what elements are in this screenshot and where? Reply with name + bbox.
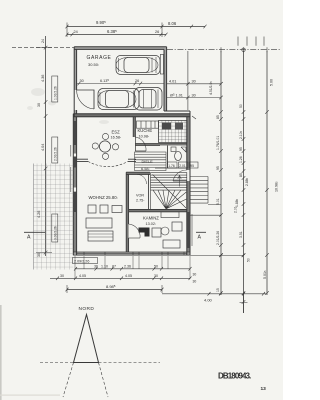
kitchen bottom wall	[135, 144, 186, 146]
WC sink	[171, 147, 176, 152]
svg-text:4.51/2.05: 4.51/2.05	[209, 81, 213, 95]
garage walls	[74, 47, 166, 117]
KAMINZ fireplace	[139, 228, 150, 237]
svg-text:ESZ: ESZ	[112, 130, 121, 135]
svg-text:A: A	[198, 235, 202, 241]
north arrow triangle	[74, 315, 99, 363]
door WOHNZ/VOR	[129, 237, 140, 239]
svg-text:4.05: 4.05	[79, 274, 86, 278]
kitchen stove dark	[175, 123, 183, 130]
kitchen counter band	[137, 121, 159, 128]
svg-text:6.58▫: 6.58▫	[141, 166, 150, 171]
svg-text:95: 95	[190, 164, 194, 168]
VOR right wall	[148, 174, 150, 209]
svg-text:GARAGE: GARAGE	[87, 55, 112, 61]
wide opening arc (ESZ-WOHNZ)	[88, 161, 128, 166]
left wall dark segment 3	[73, 192, 76, 212]
svg-text:30.50▫: 30.50▫	[88, 62, 99, 67]
svg-text:10.985: 10.985	[275, 181, 279, 192]
svg-text:DIELE: DIELE	[142, 159, 154, 164]
svg-text:50: 50	[247, 258, 251, 262]
svg-text:26: 26	[155, 30, 159, 34]
svg-text:4.00: 4.00	[204, 298, 213, 303]
svg-text:30: 30	[60, 274, 64, 278]
svg-text:30: 30	[80, 79, 84, 83]
svg-text:A: A	[27, 235, 31, 241]
fence ticks on axis	[238, 37, 264, 46]
svg-text:30: 30	[193, 273, 197, 277]
right vertical dimension line R2	[242, 51, 246, 313]
svg-text:30: 30	[37, 103, 41, 107]
svg-text:2.36: 2.36	[124, 264, 131, 268]
stairs	[151, 173, 187, 210]
svg-text:1.76: 1.76	[168, 164, 175, 168]
svg-text:2.09/2.26: 2.09/2.26	[74, 259, 89, 263]
svg-text:30: 30	[192, 93, 196, 97]
svg-text:15: 15	[216, 288, 220, 292]
sofa	[86, 218, 112, 228]
svg-text:87: 87	[112, 264, 116, 268]
svg-text:4.05: 4.05	[125, 274, 132, 278]
svg-text:2.75▫: 2.75▫	[136, 199, 144, 203]
right vertical dimension line R3	[265, 51, 269, 295]
axis crosses	[221, 47, 267, 52]
left vertical dimension line	[36, 36, 52, 256]
svg-text:Ø51.01: Ø51.01	[170, 92, 183, 97]
garage door (left)	[77, 90, 94, 109]
svg-text:KÜCHE: KÜCHE	[138, 128, 153, 133]
entrance door right	[173, 180, 187, 182]
house top wall / garage bottom wall	[73, 111, 190, 117]
WOHNZ furniture: armchairs	[88, 205, 96, 213]
DIELE hatched wardrobe box	[135, 152, 167, 171]
dim line 1.01/30	[167, 96, 222, 100]
svg-text:VOR: VOR	[136, 194, 144, 198]
svg-text:1.10: 1.10	[101, 264, 108, 268]
small marker near wall	[192, 116, 196, 119]
svg-text:1.885: 1.885	[235, 198, 239, 207]
svg-text:24: 24	[74, 30, 78, 34]
svg-text:1.76/1.01: 1.76/1.01	[216, 136, 220, 150]
car 2 garage bottom left	[98, 89, 139, 110]
svg-text:85: 85	[239, 173, 243, 177]
car 1 garage top	[116, 56, 160, 75]
svg-text:2.01/2.26: 2.01/2.26	[216, 231, 220, 245]
interior wall ESZ/KUECHE	[133, 117, 135, 137]
wall under ESZ	[77, 159, 136, 161]
terrace tiles left	[34, 164, 74, 270]
window label box 2.09/2.26	[73, 258, 98, 264]
svg-text:13: 13	[261, 386, 267, 392]
house right wall	[187, 111, 190, 255]
left wall window sill lines	[70, 145, 72, 192]
label boxes near DIELE	[168, 162, 199, 168]
svg-text:2.01: 2.01	[179, 164, 186, 168]
axis dash-dot line top right	[167, 49, 281, 51]
svg-text:5.00: 5.00	[270, 79, 274, 86]
rotated dimension texts	[37, 39, 279, 292]
chairs	[102, 133, 108, 139]
bottom total dim 8.98	[66, 285, 164, 293]
north dashed lines	[40, 363, 160, 398]
svg-text:5.01: 5.01	[216, 198, 220, 205]
svg-text:DB180943.: DB180943.	[218, 372, 251, 381]
KAMINZ top wall	[129, 209, 187, 211]
svg-text:30: 30	[192, 79, 196, 83]
bottom dim row 1	[74, 267, 192, 271]
kitchen sink dark	[162, 123, 171, 130]
svg-text:10.98▫: 10.98▫	[139, 134, 150, 138]
house left wall	[73, 114, 76, 255]
svg-text:KAMINZ: KAMINZ	[143, 216, 159, 221]
terrace border	[33, 164, 35, 270]
svg-text:8.06: 8.06	[168, 21, 177, 26]
svg-text:1.01/2.26: 1.01/2.26	[54, 86, 58, 100]
door DIELE/VOR	[137, 174, 147, 184]
dim line 4.01/30	[167, 82, 222, 86]
bottom dim row 2	[50, 277, 192, 281]
svg-text:NORD: NORD	[79, 306, 95, 312]
svg-text:WOHNZ 25.80▫: WOHNZ 25.80▫	[89, 195, 118, 200]
WC wall	[155, 146, 187, 169]
svg-text:4.04: 4.04	[41, 144, 45, 151]
svg-text:50: 50	[154, 264, 158, 268]
exterior entrance steps right	[190, 177, 208, 204]
ESZ dining table	[99, 141, 110, 152]
svg-text:24: 24	[41, 39, 45, 43]
svg-text:4.36: 4.36	[41, 75, 45, 82]
WOHNZ right wall	[126, 172, 128, 252]
svg-text:4.01: 4.01	[169, 79, 176, 83]
hall wall DIELE bottom	[126, 172, 150, 174]
svg-text:1.26: 1.26	[239, 156, 243, 163]
svg-text:30: 30	[37, 253, 41, 257]
car 3 garage bottom right	[135, 88, 163, 111]
wall extension lines right	[190, 205, 244, 256]
svg-text:2.01/2.26: 2.01/2.26	[54, 147, 58, 161]
svg-text:4.26: 4.26	[37, 211, 41, 218]
section marker A left	[24, 231, 45, 233]
scan edge shadow	[0, 305, 2, 400]
WC toilet	[175, 151, 182, 160]
kitchen tiled block	[159, 121, 187, 143]
svg-text:2.885: 2.885	[245, 177, 249, 186]
left boundary dashed line	[12, 47, 74, 49]
top dimension line 1 (9.90)	[66, 25, 207, 29]
bottom dim 4.00	[162, 292, 267, 313]
svg-text:85: 85	[216, 115, 220, 119]
door ESZ to DIELE	[135, 137, 146, 151]
garage shelf	[160, 55, 163, 75]
house bottom wall	[73, 252, 190, 255]
wall poche fills	[73, 47, 190, 256]
svg-text:16.58▫: 16.58▫	[111, 136, 122, 140]
landing below stairs	[161, 212, 179, 218]
right wall window dark	[187, 212, 190, 248]
svg-text:5.015: 5.015	[263, 270, 267, 279]
rug	[88, 231, 113, 241]
svg-text:50: 50	[239, 104, 243, 108]
svg-text:95: 95	[239, 147, 243, 151]
svg-text:26: 26	[135, 79, 139, 83]
svg-text:3.01/2.26: 3.01/2.26	[54, 226, 58, 240]
svg-text:3.51: 3.51	[239, 231, 243, 238]
svg-text:95: 95	[216, 166, 220, 170]
svg-text:13.02▫: 13.02▫	[146, 222, 157, 226]
left wall dark segment 2	[73, 157, 76, 168]
bottom wall guide stubs	[75, 256, 190, 279]
section marker A right tick	[196, 231, 206, 233]
svg-text:30: 30	[193, 280, 197, 284]
top dimension line 2 (6.38)	[66, 23, 168, 38]
right vertical dimension line R1	[219, 51, 223, 295]
WC corner shower	[181, 147, 186, 152]
left wall dark segment 1	[73, 121, 76, 145]
svg-text:2.105: 2.105	[239, 130, 243, 139]
svg-text:36: 36	[94, 264, 98, 268]
garage interior dim line	[77, 82, 164, 86]
svg-text:30: 30	[154, 274, 158, 278]
KAMINZ sofa group	[152, 228, 161, 237]
mid vertical dimension line	[187, 51, 189, 110]
left rotated window boxes	[52, 76, 58, 242]
